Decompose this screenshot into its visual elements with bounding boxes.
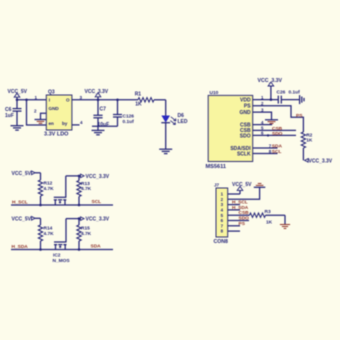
svg-text:VCC_5V: VCC_5V bbox=[12, 217, 32, 223]
svg-text:0.1uf: 0.1uf bbox=[123, 119, 135, 125]
svg-text:GND: GND bbox=[239, 110, 251, 116]
svg-text:SCL: SCL bbox=[92, 199, 102, 205]
svg-text:R12: R12 bbox=[44, 181, 53, 187]
svg-text:VCC_5V: VCC_5V bbox=[8, 89, 28, 95]
svg-text:R1: R1 bbox=[135, 92, 142, 98]
svg-text:PS: PS bbox=[239, 221, 246, 227]
svg-text:VCC_5V: VCC_5V bbox=[12, 171, 32, 177]
svg-text:R13: R13 bbox=[81, 181, 90, 187]
svg-text:4.7K: 4.7K bbox=[44, 186, 55, 192]
svg-text:en: en bbox=[49, 121, 55, 126]
svg-text:GND: GND bbox=[49, 106, 60, 111]
svg-text:SCL: SCL bbox=[272, 149, 282, 155]
svg-text:PS: PS bbox=[296, 113, 303, 119]
svg-text:VCC_3.3V: VCC_3.3V bbox=[86, 174, 110, 180]
svg-text:CSB: CSB bbox=[239, 210, 250, 216]
svg-text:VCC_3.3V: VCC_3.3V bbox=[309, 158, 333, 164]
svg-text:LED: LED bbox=[178, 119, 188, 125]
svg-text:CON8: CON8 bbox=[214, 239, 229, 245]
svg-text:4.7K: 4.7K bbox=[81, 231, 92, 237]
svg-text:SDO: SDO bbox=[272, 131, 283, 137]
svg-text:VCC_3.3V: VCC_3.3V bbox=[85, 89, 109, 95]
svg-text:1K: 1K bbox=[306, 138, 313, 144]
svg-text:C26: C26 bbox=[277, 89, 286, 95]
svg-text:I: I bbox=[49, 98, 50, 103]
svg-text:SDO: SDO bbox=[240, 133, 251, 139]
svg-text:0.1uf: 0.1uf bbox=[289, 89, 301, 95]
svg-text:1uF: 1uF bbox=[5, 113, 14, 119]
svg-text:H_SCL: H_SCL bbox=[12, 200, 28, 206]
svg-text:N_MOS: N_MOS bbox=[53, 258, 71, 264]
svg-text:VCC_3.3V: VCC_3.3V bbox=[86, 217, 110, 223]
svg-text:J7: J7 bbox=[214, 182, 220, 187]
svg-text:C126: C126 bbox=[123, 114, 135, 120]
svg-text:SCLK: SCLK bbox=[237, 151, 251, 157]
svg-text:R3: R3 bbox=[265, 209, 271, 215]
svg-text:R14: R14 bbox=[44, 226, 53, 232]
svg-text:O: O bbox=[66, 98, 70, 103]
svg-text:4.7K: 4.7K bbox=[81, 186, 92, 192]
svg-text:3.3V LDO: 3.3V LDO bbox=[44, 131, 69, 137]
svg-text:1K: 1K bbox=[135, 102, 142, 108]
svg-text:1K: 1K bbox=[266, 220, 273, 226]
svg-text:VCC_3.3V: VCC_3.3V bbox=[258, 78, 283, 84]
svg-text:10uF: 10uF bbox=[98, 122, 110, 128]
svg-text:VDD: VDD bbox=[240, 98, 251, 104]
svg-text:4.7K: 4.7K bbox=[44, 231, 55, 237]
svg-text:C7: C7 bbox=[100, 107, 107, 113]
svg-text:U10: U10 bbox=[210, 90, 219, 96]
svg-text:MS5611: MS5611 bbox=[206, 164, 227, 170]
svg-text:H_SCL: H_SCL bbox=[232, 200, 248, 206]
svg-text:IC2: IC2 bbox=[53, 253, 61, 259]
svg-text:H_SDA: H_SDA bbox=[232, 205, 249, 211]
svg-text:SDO: SDO bbox=[239, 216, 250, 222]
svg-text:VCC_5V: VCC_5V bbox=[232, 182, 252, 188]
svg-text:SDA: SDA bbox=[91, 244, 102, 250]
svg-text:R15: R15 bbox=[81, 226, 90, 232]
svg-text:PS: PS bbox=[244, 104, 251, 110]
svg-text:H_SDA: H_SDA bbox=[12, 244, 29, 250]
svg-text:SDA: SDA bbox=[272, 144, 283, 150]
svg-text:Q3: Q3 bbox=[48, 90, 55, 96]
svg-text:by: by bbox=[62, 121, 68, 126]
